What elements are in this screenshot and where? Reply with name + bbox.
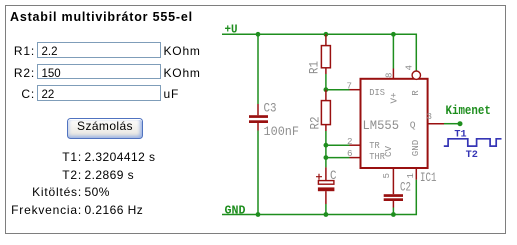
waveform <box>444 139 502 146</box>
junction node pin 6 <box>324 155 329 160</box>
svg-text:4: 4 <box>405 65 415 71</box>
node Kimenet dot <box>458 121 463 126</box>
title <box>10 10 193 24</box>
pin 4 bubble <box>412 71 420 79</box>
wire C bottom <box>325 204 327 215</box>
wire pin 3 to output node <box>444 123 460 125</box>
wire pin 8 drop <box>392 34 394 68</box>
junction node R1/R2/pin7 <box>324 87 329 92</box>
svg-text:LM555: LM555 <box>363 119 400 133</box>
svg-text:2: 2 <box>347 137 353 147</box>
capacitor C3 <box>249 104 268 131</box>
svg-text:TR: TR <box>369 141 380 151</box>
svg-text:C2: C2 <box>400 181 411 195</box>
svg-text:IC1: IC1 <box>420 171 437 185</box>
svg-text:GND: GND <box>225 204 246 217</box>
wire C2 to rail <box>392 208 394 215</box>
svg-text:100nF: 100nF <box>264 125 300 139</box>
svg-text:CV: CV <box>384 145 394 157</box>
svg-text:R: R <box>411 90 421 96</box>
svg-text:C3: C3 <box>264 101 277 115</box>
svg-text:8: 8 <box>385 73 395 79</box>
capacitor C2 <box>384 194 403 207</box>
svg-text:5: 5 <box>382 173 392 179</box>
junction node pin 2 <box>324 143 329 148</box>
svg-text:3: 3 <box>427 112 433 122</box>
capacitor C polarized <box>318 167 335 204</box>
svg-text:C: C <box>330 169 337 183</box>
pin 1 lead <box>415 168 417 180</box>
svg-text:6: 6 <box>347 149 353 159</box>
plus mark of C <box>316 174 322 180</box>
resistor R2 <box>321 90 330 131</box>
resistor R1 <box>321 34 330 74</box>
wire to pin 6 <box>326 157 350 159</box>
wire to pin 2 <box>326 144 350 146</box>
pin 7 lead <box>350 89 361 91</box>
form labels <box>0 44 35 58</box>
pin 2 lead <box>350 144 361 146</box>
net +U top rail wire <box>222 34 416 71</box>
button <box>67 118 143 139</box>
units <box>164 44 201 58</box>
pin 3 lead <box>428 123 444 125</box>
junction bottom rail / C2 <box>391 212 396 217</box>
wire R2 bottom to C <box>325 131 327 167</box>
pin 6 lead <box>350 157 361 159</box>
wire C3 bottom <box>257 131 259 215</box>
wire R1 to node <box>325 74 327 90</box>
svg-text:7: 7 <box>347 81 353 91</box>
svg-text:GND: GND <box>411 140 421 157</box>
svg-text:Q: Q <box>410 120 416 130</box>
svg-text:Kimenet: Kimenet <box>446 104 491 118</box>
svg-text:1: 1 <box>406 173 416 179</box>
pin 5 lead <box>392 168 394 194</box>
net GND bottom rail wire <box>222 180 416 215</box>
junction top rail / C3 <box>256 32 261 37</box>
svg-text:T1: T1 <box>454 129 466 141</box>
pin 8 lead <box>392 69 394 79</box>
svg-text:+U: +U <box>225 24 238 37</box>
junction bottom rail / C <box>324 212 329 217</box>
junction top rail / R1 <box>324 32 329 37</box>
results <box>0 150 82 164</box>
svg-text:T2: T2 <box>466 149 478 161</box>
op-amp / timer IC1 LM555 box <box>361 79 428 168</box>
wire C3 top <box>257 34 259 104</box>
svg-text:V+: V+ <box>390 93 400 104</box>
svg-text:DIS: DIS <box>369 88 385 98</box>
inputs <box>37 42 161 58</box>
svg-text:R1: R1 <box>308 61 322 74</box>
wire to pin 7 <box>326 89 350 91</box>
junction top rail / pin 8 <box>391 32 396 37</box>
svg-text:R2: R2 <box>309 117 323 130</box>
junction bottom rail / C3 <box>256 212 261 217</box>
